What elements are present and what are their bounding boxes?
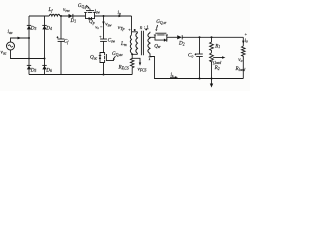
- junction Co top: [199, 36, 201, 38]
- current arrow i_o: [242, 41, 244, 44]
- wire bottom rail primary: [29, 74, 132, 76]
- junction divider bottom: [211, 78, 213, 80]
- svg-text:GQ,p: GQ,p: [78, 3, 87, 10]
- node A junction: [28, 37, 30, 39]
- transformer core: [141, 31, 143, 56]
- diode D5: [27, 65, 31, 69]
- node B junction: [44, 58, 46, 60]
- wire ac bottom to bridge node B: [11, 50, 45, 59]
- svg-text:+: +: [244, 32, 247, 37]
- wire secondary top: [150, 36, 155, 38]
- svg-text:Rload: Rload: [235, 66, 246, 72]
- diode D2: [177, 35, 182, 39]
- transistor Qp: [84, 5, 96, 20]
- current arrow on clamp branch: [102, 22, 104, 26]
- wire top rail left: [29, 15, 49, 17]
- junction Co bottom: [199, 78, 201, 80]
- svg-text:+: +: [128, 27, 131, 32]
- diode D3: [27, 25, 31, 29]
- svg-text:RF,CS: RF,CS: [118, 65, 129, 72]
- current arrow i_ac: [18, 37, 22, 40]
- crossing dot: [28, 58, 30, 60]
- svg-text:R1: R1: [214, 43, 220, 49]
- svg-text:D3: D3: [30, 25, 37, 31]
- diode D6: [42, 65, 46, 69]
- svg-text:D5: D5: [30, 67, 37, 73]
- wire output top rail: [182, 36, 243, 38]
- junction Rfcs top: [131, 53, 133, 55]
- diode D4: [42, 25, 46, 29]
- svg-text:D6: D6: [45, 67, 52, 73]
- resistor Rload: [242, 46, 246, 79]
- plus tick Cf: [57, 36, 59, 38]
- inductor Lf: [49, 14, 60, 16]
- resistor Rfcs: [130, 54, 134, 74]
- junction clamp bottom: [103, 74, 105, 76]
- arrow v_f,load: [213, 57, 222, 59]
- current arrow i_s: [170, 76, 176, 78]
- arrow vfcs: [139, 63, 141, 66]
- wire Qsr to D2: [167, 36, 177, 38]
- arrow to Qsr gate: [157, 25, 158, 29]
- current arrow i_p: [119, 15, 123, 17]
- wire output bottom rail: [150, 57, 243, 79]
- junction node Cf tap: [60, 15, 62, 17]
- svg-text:n : 1: n : 1: [140, 25, 150, 31]
- wire ac top to bridge node A: [11, 38, 30, 42]
- svg-text:D2: D2: [178, 41, 185, 47]
- wire top rail Lf to Qp: [60, 15, 86, 17]
- wire clamp branch mid: [103, 41, 105, 52]
- wire vfcs stub: [132, 58, 140, 63]
- polarity dot secondary: [145, 28, 147, 30]
- capacitor Csw: [100, 39, 107, 41]
- transformer T primary: [132, 32, 138, 55]
- ground: [210, 79, 213, 88]
- wire corner into transformer: [131, 16, 133, 32]
- wire right bridge column: [44, 16, 46, 75]
- wire left bridge column: [28, 16, 30, 75]
- capacitor Co: [196, 37, 203, 78]
- inductor Lm: [130, 32, 131, 55]
- svg-text:Co: Co: [188, 53, 193, 59]
- wire top rail Qp to corner: [95, 15, 132, 17]
- svg-text:D1: D1: [70, 18, 77, 24]
- junction clamp tap: [103, 15, 105, 17]
- svg-text:+: +: [99, 34, 102, 39]
- wire clamp branch lower: [103, 63, 105, 75]
- capacitor Cf: [58, 16, 65, 75]
- arrow to Qac gate: [114, 56, 116, 58]
- ac source Vac: [7, 42, 15, 50]
- svg-text:R2: R2: [214, 65, 220, 71]
- svg-text:D4: D4: [45, 25, 52, 31]
- transistor Qsr: [154, 33, 168, 42]
- polarity dot primary: [134, 29, 136, 31]
- svg-text:vTp: vTp: [118, 25, 125, 31]
- junction divider top: [211, 36, 213, 38]
- wire clamp branch upper: [103, 16, 105, 39]
- resistor R1: [210, 37, 214, 53]
- svg-text:GQ,ac: GQ,ac: [112, 51, 123, 58]
- diode D1: [69, 14, 73, 18]
- wire right edge and load column: [242, 37, 244, 46]
- transistor Qac: [99, 52, 114, 62]
- svg-text:Csw: Csw: [108, 38, 116, 44]
- resistor R2: [210, 53, 214, 79]
- transformer T secondary: [148, 32, 150, 57]
